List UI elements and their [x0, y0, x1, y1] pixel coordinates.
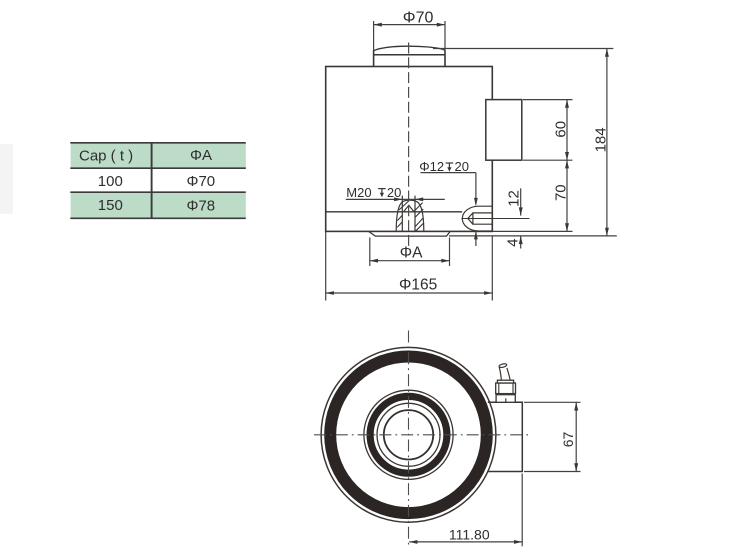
- 111.80 right extension: [521, 474, 523, 547]
- body mid seam line: [326, 211, 463, 213]
- 67 arrows: [574, 402, 578, 410]
- 184 top extension line: [433, 48, 613, 50]
- arrowheads side view: [326, 23, 609, 295]
- svg-text:67: 67: [560, 432, 576, 448]
- gland base tick: [505, 398, 507, 402]
- hatch lines: [397, 201, 424, 232]
- 12 arrow: [519, 207, 523, 215]
- phi70 arrows: [374, 23, 382, 27]
- 111.80 arrows: [409, 540, 417, 544]
- M20 depth symbol: [378, 189, 386, 194]
- svg-text:100: 100: [98, 173, 123, 190]
- plug body: [468, 213, 493, 224]
- table horizontal lines: [70, 143, 246, 219]
- svg-text:20: 20: [387, 185, 401, 200]
- table texts: [79, 147, 215, 214]
- phiA extension lines: [369, 238, 371, 267]
- 184 bottom extension line: [449, 235, 617, 237]
- vertical centerline of side view: [408, 43, 410, 250]
- block bottom extension: [523, 159, 573, 161]
- cable gland base: [496, 380, 516, 402]
- hole arch outline: [396, 200, 424, 231]
- svg-text:M20: M20: [346, 185, 371, 200]
- svg-text:150: 150: [98, 197, 123, 214]
- phi70 dimension line: [374, 24, 445, 26]
- 60 arrows: [565, 100, 569, 108]
- svg-text:ΦA: ΦA: [400, 244, 423, 261]
- table row1 green fill: [71, 143, 246, 168]
- plug centerline: [462, 218, 530, 220]
- horizontal centerline: [314, 434, 529, 436]
- svg-text:60: 60: [553, 121, 570, 138]
- 70 arrows: [565, 160, 569, 168]
- phi12 leader arrow: [474, 198, 478, 206]
- top view dimensions: [409, 402, 580, 546]
- phiA arrows: [370, 259, 378, 263]
- load button dome: [374, 46, 445, 51]
- thread minor lines: [401, 196, 403, 232]
- svg-text:ΦA: ΦA: [190, 147, 212, 164]
- side view dimension texts: [346, 10, 609, 294]
- bottom step extension: [492, 230, 572, 232]
- inner thin circle: [364, 390, 453, 479]
- phi165 extension lines: [325, 232, 327, 301]
- gland nut facets: [498, 383, 500, 394]
- outer circle: [321, 347, 496, 522]
- svg-text:Φ78: Φ78: [187, 197, 216, 214]
- 4 arrow: [519, 236, 523, 244]
- hole lower arrow: [474, 231, 478, 239]
- 4 dimension line: [520, 236, 522, 249]
- body outline: [326, 67, 493, 232]
- inner black ring: [370, 396, 447, 473]
- phi12 cable hole: [462, 206, 530, 231]
- table spec: [70, 143, 246, 219]
- svg-text:184: 184: [593, 127, 610, 152]
- M20 threaded hole: [396, 196, 424, 232]
- hole lower arrow line: [475, 231, 477, 246]
- 184 arrows: [605, 49, 609, 57]
- table row3 green fill: [71, 193, 246, 218]
- 67 dimension line: [575, 402, 577, 471]
- table vertical divider: [151, 143, 153, 219]
- phi165 dimension line: [326, 292, 493, 294]
- vertical centerline: [408, 331, 410, 547]
- svg-text:70: 70: [553, 184, 570, 201]
- phi12 depth symbol: [446, 163, 454, 168]
- dimension graphics: [326, 21, 617, 301]
- phi12 leader vertical: [475, 173, 477, 205]
- svg-text:Φ70: Φ70: [187, 173, 216, 190]
- svg-text:Φ165: Φ165: [399, 277, 437, 294]
- top view connector housing: [487, 402, 522, 471]
- connector block: [486, 100, 522, 161]
- load button seam: [374, 54, 445, 56]
- M20 arrows: [394, 197, 402, 201]
- center hole circle: [384, 410, 433, 459]
- svg-text:20: 20: [455, 159, 469, 174]
- phi70 extension lines: [373, 21, 375, 51]
- svg-text:Φ70: Φ70: [403, 10, 434, 27]
- top view arrowheads: [409, 402, 578, 544]
- faint left edge smudge: [0, 144, 13, 214]
- load button sides: [373, 51, 375, 67]
- svg-text:Φ12: Φ12: [419, 159, 444, 174]
- drill tip chevron: [404, 205, 414, 211]
- svg-text:Cap ( t ): Cap ( t ): [79, 148, 133, 165]
- top view: [314, 331, 529, 547]
- cable tube: [499, 367, 510, 380]
- svg-text:111.80: 111.80: [449, 526, 490, 542]
- outer black ring: [330, 357, 487, 514]
- svg-text:4: 4: [505, 239, 522, 247]
- 184 dimension line: [606, 49, 608, 236]
- hole stadium outline: [462, 206, 492, 231]
- inner thin circle 2: [377, 403, 440, 466]
- 12 dimension line: [520, 188, 522, 215]
- 67 bottom extension: [524, 471, 581, 473]
- bottom boss: [369, 231, 451, 236]
- svg-text:12: 12: [506, 190, 523, 207]
- 111.80 dimension line: [409, 541, 522, 543]
- block top extension: [523, 99, 573, 101]
- M20 leader underline: [346, 198, 445, 200]
- 60-70 dimension line: [566, 100, 568, 232]
- phi12 leader horizontal: [421, 172, 476, 174]
- cable end ellipse: [499, 363, 507, 368]
- 67 top extension: [524, 401, 581, 403]
- side view: [326, 46, 522, 236]
- top view texts: [449, 432, 576, 543]
- phi165 arrows: [326, 291, 334, 295]
- phiA dimension line: [370, 260, 450, 262]
